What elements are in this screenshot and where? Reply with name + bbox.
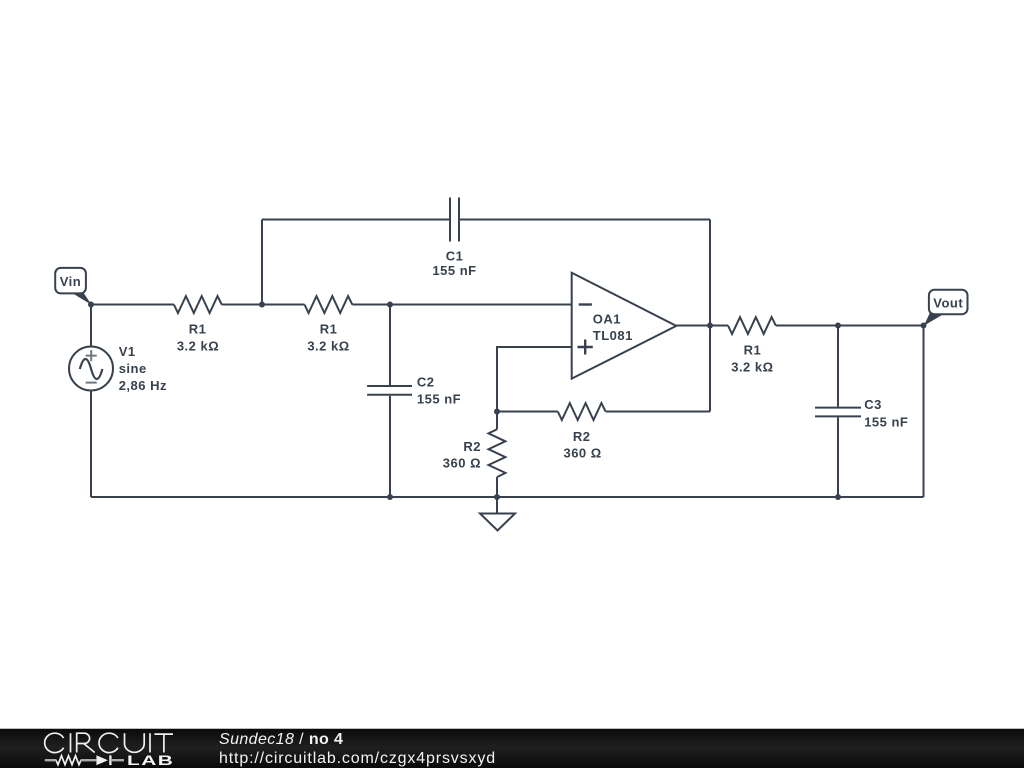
resistor R2 (horizontal, feedback) <box>558 403 606 420</box>
svg-text:R1: R1 <box>744 343 762 358</box>
wire node D to Vout node <box>838 325 924 327</box>
op-amp OA1 triangle <box>572 273 677 379</box>
node E junction dot <box>494 409 500 415</box>
node A junction dot <box>88 302 94 308</box>
logo letter C <box>45 733 64 752</box>
logo diode triangle <box>96 755 108 765</box>
wire top feedback right <box>459 219 710 221</box>
wire C2 branch lower <box>389 396 391 497</box>
node D junction dot <box>835 323 841 329</box>
logo resistor lead left <box>45 759 57 761</box>
svg-text:R1: R1 <box>320 322 338 337</box>
node B junction dot <box>259 302 265 308</box>
CircuitLab logo <box>0 729 190 769</box>
wire node B to R1b <box>262 304 305 306</box>
wire C3 branch upper <box>837 326 839 407</box>
op-amp minus marker <box>579 303 592 305</box>
wire R2h to feedback drop <box>606 411 710 413</box>
credit line 2 <box>219 750 496 768</box>
Vout junction dot <box>921 323 927 329</box>
wire C2 branch upper <box>389 305 391 386</box>
resistor R1 (third, output) <box>728 317 776 334</box>
logo letter I <box>149 733 151 752</box>
wire Vout drop <box>923 326 925 498</box>
capacitor C3 <box>815 408 861 417</box>
voltage source V1 <box>69 347 113 391</box>
wire node B up to top feedback <box>261 220 263 305</box>
wire op-amp output to R1c <box>676 325 728 327</box>
wire node C to op-amp inverting input <box>390 304 572 306</box>
svg-text:155 nF: 155 nF <box>432 263 476 278</box>
svg-text:3.2 kΩ: 3.2 kΩ <box>177 339 219 354</box>
wire feedback drop to R2 row <box>709 220 711 412</box>
ground stub <box>496 497 498 514</box>
svg-text:TL081: TL081 <box>593 328 633 343</box>
svg-text:R2: R2 <box>573 429 591 444</box>
wire op-amp non-inverting input <box>497 347 572 412</box>
resistor R1 (second) <box>305 296 353 313</box>
resistor R2 (vertical) lead bottom <box>496 477 498 497</box>
op-amp plus marker <box>578 340 593 355</box>
svg-text:3.2 kΩ: 3.2 kΩ <box>307 339 349 354</box>
bottom rail junction dot at C2 <box>387 494 393 500</box>
svg-text:OA1: OA1 <box>593 312 621 327</box>
Vin flag box <box>55 268 86 294</box>
logo letter R <box>77 733 95 752</box>
bottom rail junction dot at ground <box>494 494 500 500</box>
logo wire resistor to diode <box>81 759 97 761</box>
wire R1c to node D <box>776 325 838 327</box>
svg-text:C3: C3 <box>864 397 882 412</box>
wire node E to R2h <box>497 411 558 413</box>
svg-text:C1: C1 <box>446 249 464 264</box>
resistor R1 (first, input) <box>174 296 222 313</box>
credit line 1 <box>219 731 343 749</box>
svg-text:Vout: Vout <box>933 296 963 311</box>
svg-text:LAB: LAB <box>127 753 174 769</box>
logo wire after diode <box>110 759 124 761</box>
wire V1 top lead <box>90 305 92 347</box>
wire top feedback left <box>262 219 450 221</box>
bottom rail junction dot at C3 <box>835 494 841 500</box>
wire C3 branch lower <box>837 417 839 497</box>
op-amp output junction dot <box>707 323 713 329</box>
svg-text:V1: V1 <box>119 344 136 359</box>
svg-text:Vin: Vin <box>60 274 82 289</box>
V1 minus polarity mark <box>86 382 97 384</box>
logo letter I <box>70 733 72 752</box>
resistor R2 (vertical) lead top <box>496 412 498 430</box>
Vout flag tail <box>924 313 946 326</box>
wire bottom rail <box>91 496 924 498</box>
logo letter C <box>99 733 118 752</box>
svg-text:155 nF: 155 nF <box>864 414 908 429</box>
wire R1a to node B <box>222 304 262 306</box>
svg-text:155 nF: 155 nF <box>417 391 461 406</box>
svg-text:R1: R1 <box>189 322 207 337</box>
V1 sine symbol <box>80 359 103 379</box>
wire V1 bottom lead <box>90 391 92 498</box>
svg-text:360 Ω: 360 Ω <box>563 446 601 461</box>
resistor R2 (vertical) <box>489 429 506 477</box>
Vin flag tail <box>71 292 92 305</box>
svg-text:R2: R2 <box>463 439 481 454</box>
logo diode cathode bar <box>109 755 111 765</box>
logo resistor zigzag <box>56 756 81 765</box>
logo letter U <box>125 733 145 752</box>
ground symbol <box>480 514 515 531</box>
V1 plus polarity mark <box>86 350 97 383</box>
svg-text:2,86 Hz: 2,86 Hz <box>119 378 167 393</box>
wire R1b to node C <box>352 304 390 306</box>
logo letter T <box>154 734 173 752</box>
node C junction dot <box>387 302 393 308</box>
wire input row node A to R1a <box>91 304 174 306</box>
capacitor C1 <box>450 198 459 242</box>
svg-text:sine: sine <box>119 361 147 376</box>
svg-text:360 Ω: 360 Ω <box>443 456 481 471</box>
svg-text:3.2 kΩ: 3.2 kΩ <box>731 360 773 375</box>
Vout flag box <box>929 290 968 314</box>
svg-text:C2: C2 <box>417 375 435 390</box>
capacitor C2 <box>367 386 412 395</box>
